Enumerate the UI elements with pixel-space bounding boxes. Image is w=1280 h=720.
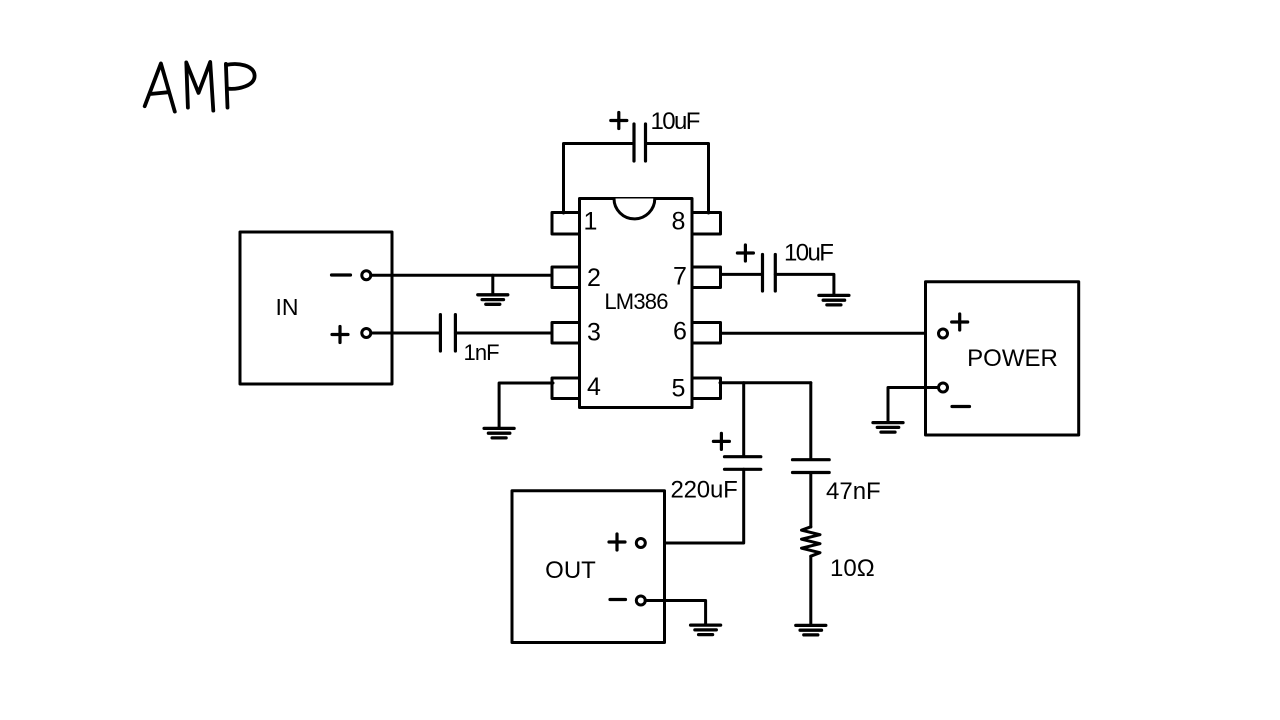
resistor R1 zigzag [802,527,821,556]
wire POWER- to ground G4 [888,388,939,423]
wire pin6 to POWER+ [721,332,939,335]
svg-text:8: 8 [672,208,686,236]
svg-text:1: 1 [584,208,598,236]
svg-text:10Ω: 10Ω [830,555,875,582]
svg-text:POWER: POWER [967,345,1058,372]
capacitor C4 220uF plates [725,457,761,470]
pin 2 stub [552,267,580,288]
pin 1 stub [552,213,580,235]
wire IN- to pin2 [371,274,552,277]
svg-text:4: 4 [587,373,601,401]
ground G1 tap wire [491,275,494,294]
wire IN+ to C2 [371,332,441,335]
IN plus sign [332,327,348,343]
ground G1 [478,295,508,305]
ground G6 [796,625,826,635]
wire C4 to OUT+ [645,469,744,543]
POWER plus sign [952,314,968,330]
OUT plus terminal [636,539,645,548]
svg-text:5: 5 [672,375,686,403]
svg-text:LM386: LM386 [604,289,668,314]
svg-text:47nF: 47nF [826,478,881,505]
wire pin7 to C3 [721,273,763,276]
pin 5 stub [692,378,721,399]
IC U1 LM386 body [580,199,693,408]
IN minus terminal [362,271,371,280]
OUT minus terminal [636,596,645,605]
C4 plus sign [713,433,729,449]
svg-text:7: 7 [673,263,687,291]
pin 4 stub [552,378,580,399]
svg-text:OUT: OUT [545,557,596,584]
wire node A down to C5 [809,383,812,460]
OUT minus sign [610,598,626,601]
ground G4 [873,423,903,433]
OUT box [512,491,665,643]
ground G3 [819,295,849,305]
wire OUT- to ground G5 [645,601,705,625]
POWER box [926,282,1079,435]
pin 7 stub [692,267,721,288]
pin 6 stub [692,323,721,344]
svg-text:IN: IN [276,294,299,320]
capacitor C1 10uF plates [634,124,646,161]
svg-text:220uF: 220uF [671,477,738,504]
wire R1 to ground G6 [809,556,812,625]
capacitor C5 47nF plates [793,460,830,473]
capacitor C3 10uF plates [763,255,776,292]
ground G2 [484,428,514,438]
capacitor C2 1nF plates [440,315,455,351]
wire C2 to pin3 [455,332,552,335]
pin 3 stub [552,323,580,344]
IN box [240,232,392,384]
POWER minus terminal [939,383,948,392]
IN minus sign [332,273,351,276]
wire pin5 node A [720,381,811,384]
wire pin1 to C1 left [564,144,635,214]
wire C5 to R1 [809,473,812,528]
IC notch [614,199,655,219]
svg-text:6: 6 [673,318,687,346]
title AMP [145,62,255,112]
POWER plus terminal [939,329,948,338]
OUT plus sign [609,534,625,550]
wire pin8 to C1 right [646,144,709,214]
svg-text:10uF: 10uF [651,108,700,135]
IN plus terminal [362,329,371,338]
svg-text:3: 3 [587,319,601,347]
C3 plus sign [737,245,753,261]
POWER minus sign [952,405,970,408]
svg-text:1nF: 1nF [464,340,500,365]
wire node A down to C4 [742,383,745,457]
ground G5 [691,625,721,635]
pin 8 stub [692,213,721,235]
svg-text:10uF: 10uF [784,240,833,267]
wire pin4 to ground G2 [499,383,553,428]
C1 plus sign [611,113,627,129]
wire C3 to ground G3 [775,274,834,295]
svg-text:2: 2 [587,264,601,292]
